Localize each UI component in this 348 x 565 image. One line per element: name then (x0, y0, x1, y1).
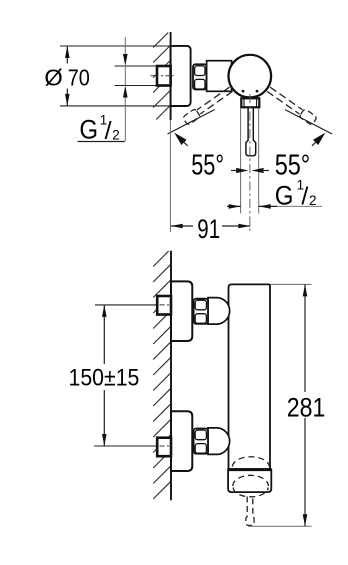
svg-text:2: 2 (112, 128, 120, 143)
svg-text:91: 91 (197, 214, 220, 244)
svg-text:2: 2 (309, 193, 317, 208)
svg-text:281: 281 (287, 393, 326, 423)
svg-text:G: G (79, 115, 98, 145)
svg-text:55°: 55° (275, 150, 311, 182)
svg-text:55°: 55° (191, 150, 224, 182)
svg-text:/: / (105, 117, 112, 145)
svg-text:/: / (301, 182, 308, 210)
svg-text:Ø: Ø (44, 65, 62, 91)
svg-text:150±15: 150±15 (69, 365, 140, 392)
svg-text:70: 70 (68, 65, 90, 91)
svg-text:G: G (275, 180, 294, 210)
